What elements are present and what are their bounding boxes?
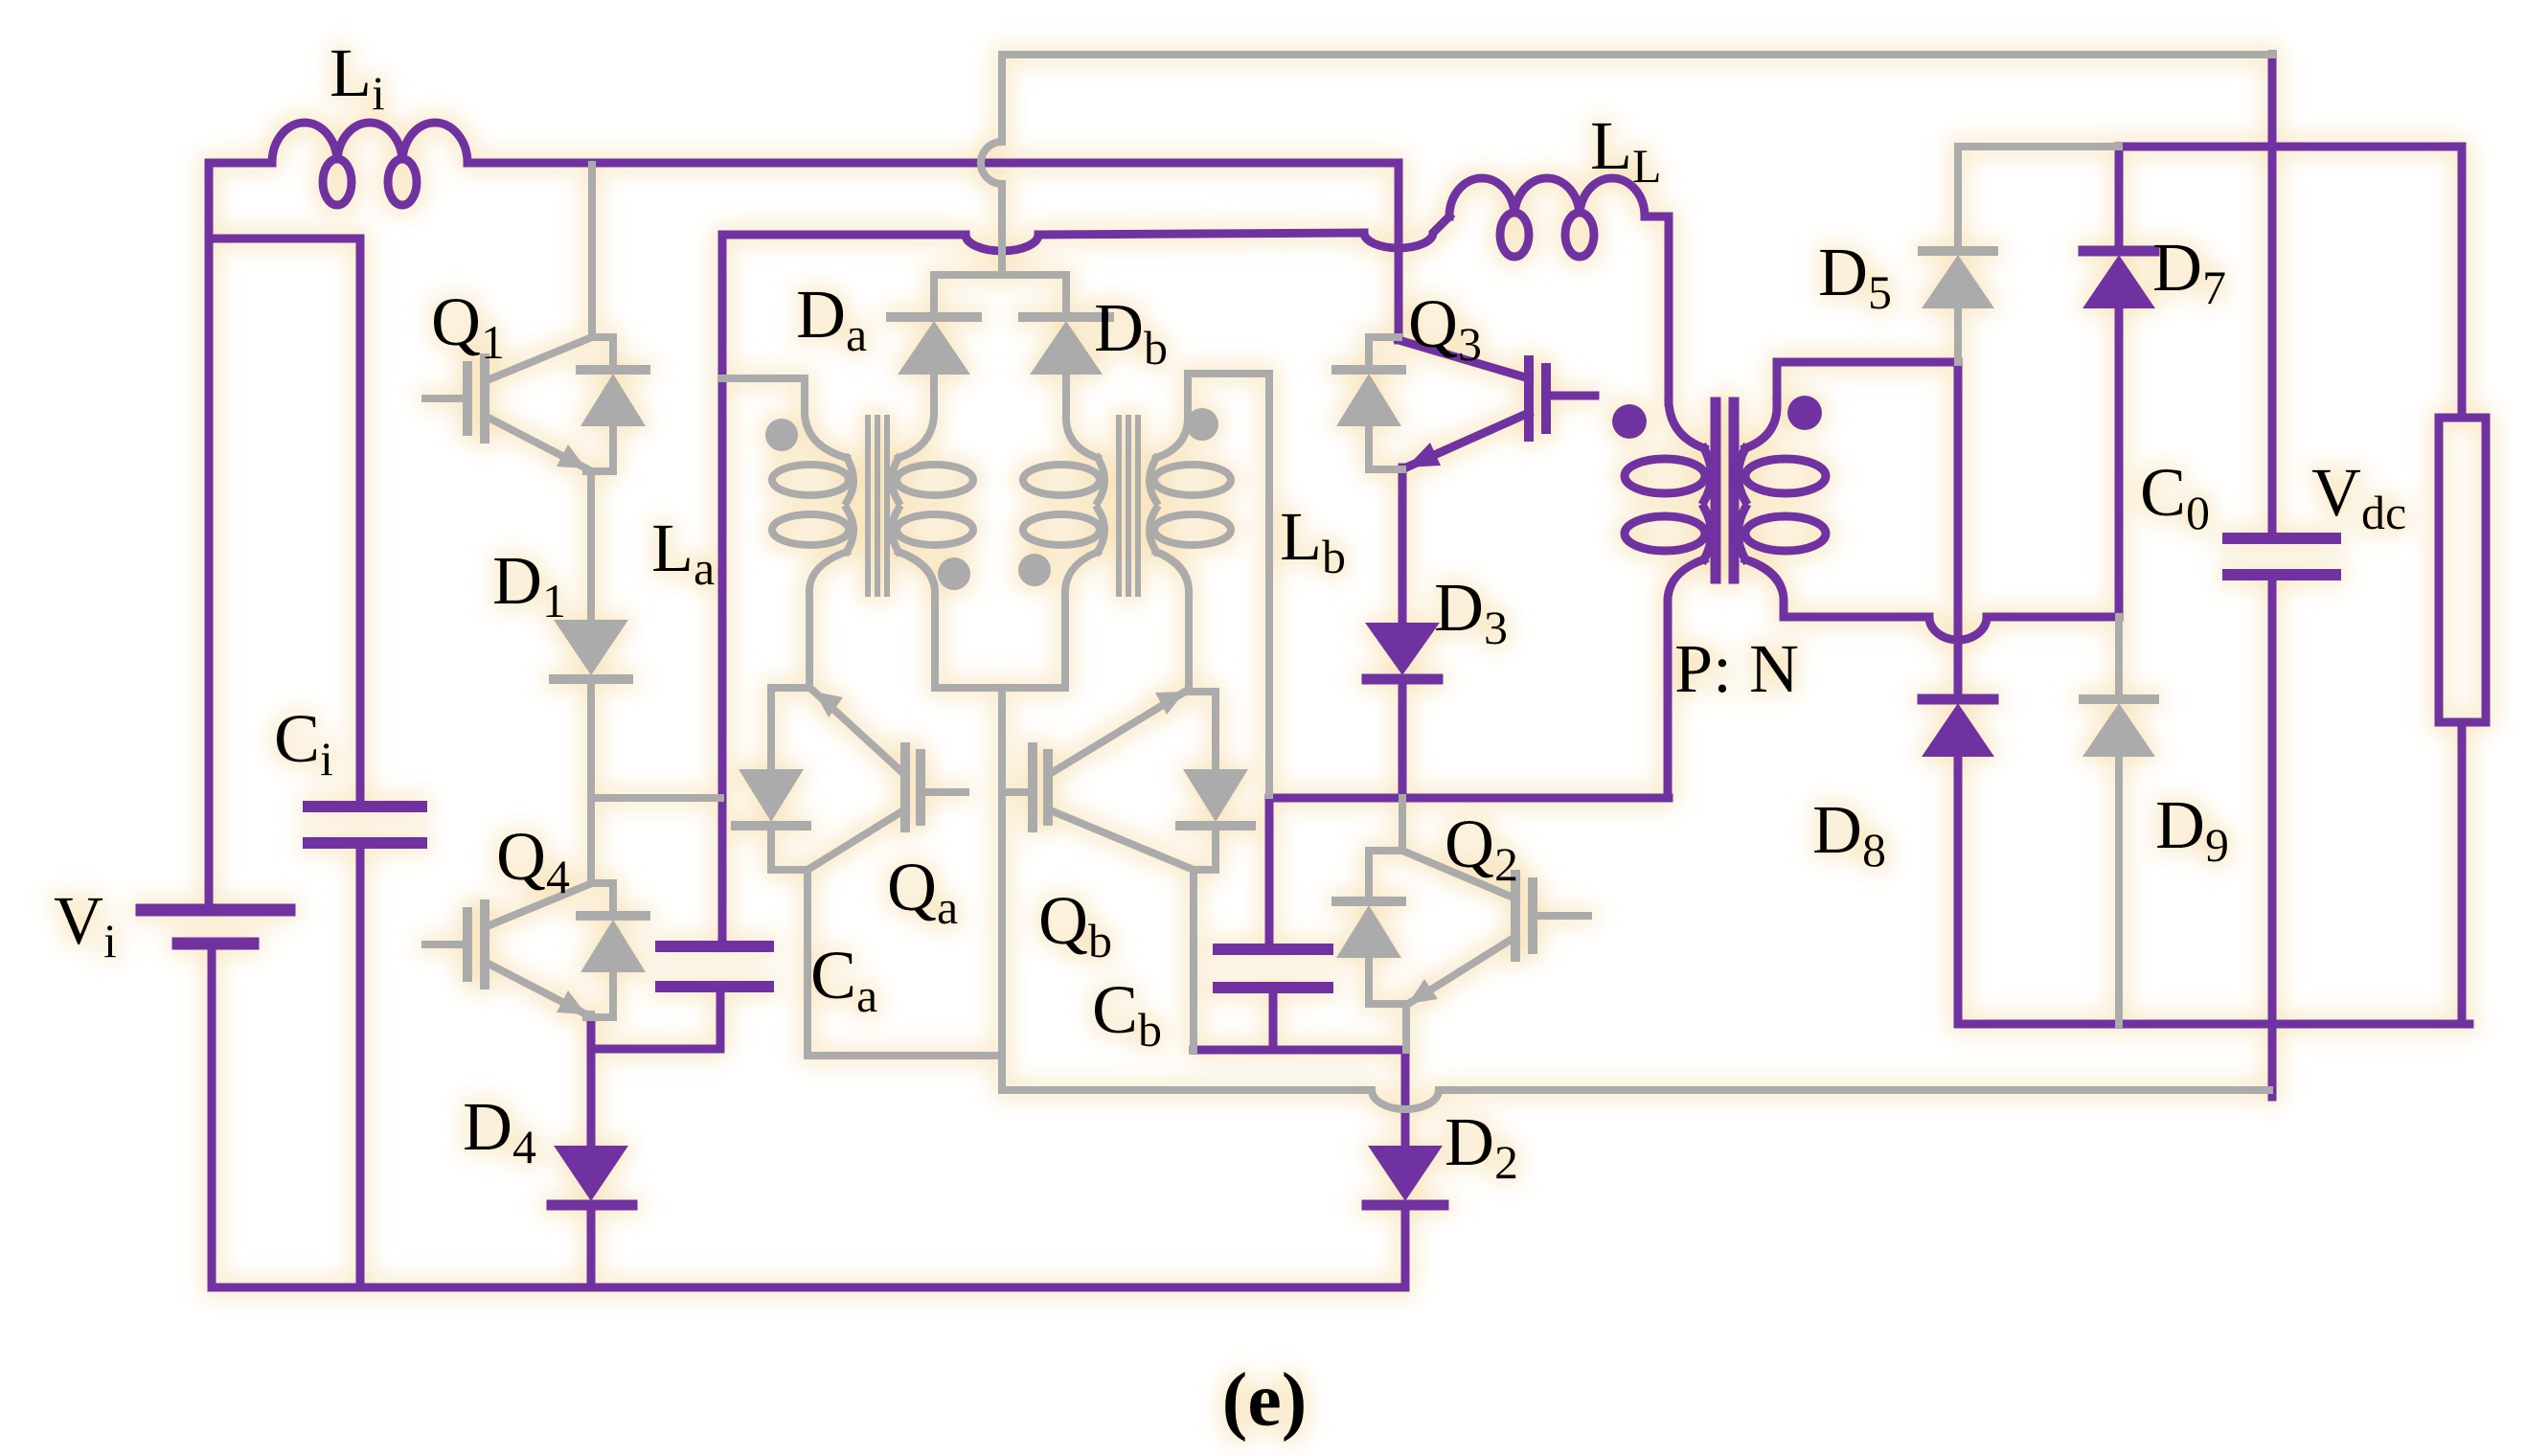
transformer P:N secondary winding [1745,402,1777,448]
wire second rail from Ca column with hops over gray center line and Q3 collector [722,216,1449,251]
antiparallel diode of Qa [771,688,808,870]
transformer b right winding [1156,374,1188,458]
polarity dot transformer a right [938,557,970,590]
wire top rail from Li to Q3 corner [467,159,1399,168]
diode D2 [1401,1050,1410,1146]
antiparallel diode of Q4 [586,883,613,1017]
svg-text:D8: D8 [1812,791,1886,876]
wire Vdc column from gray top rail [2268,55,2277,538]
transistor Q3 (IGBT, purple) [1395,163,1403,340]
polarity dot secondary [1787,396,1822,430]
load resistor [2439,418,2486,722]
transistor Q2 (IGBT, gray) [1399,798,1406,851]
wire Ci branch tap [212,239,360,807]
polarity dot primary [1612,404,1647,439]
capacitor Ci [308,807,421,843]
svg-text:Da: Da [796,276,867,361]
wire secondary bottom to D7 anode with hop over D8 column [1784,617,2119,640]
transistor Q4 (IGBT, gray) [463,912,472,977]
diode Db [1062,275,1070,317]
wire output bottom rail [1958,1020,2469,1029]
transformer b core [1119,418,1138,594]
svg-text:Qb: Qb [1038,882,1112,967]
polarity dot transformer b left [1018,554,1051,586]
polarity dot transformer a left [765,419,798,451]
svg-text:Db: Db [1094,289,1168,375]
wire Qb collector down to Cb rail [1190,870,1197,1050]
svg-text:Lb: Lb [1280,498,1346,583]
svg-text:D1: D1 [492,542,566,627]
wire Lb corner down to Cb [1265,798,1274,949]
wire secondary top to D5 anode [1777,362,1958,402]
transistor Qb (IGBT, gray) [1028,747,1037,828]
wire Cb bottom rail segment [1194,988,1405,1050]
capacitor Ca [661,946,768,987]
svg-text:Cb: Cb [1092,971,1162,1057]
antiparallel diode of Qb [1194,692,1216,870]
wire gray top rail to Vdc column [1002,51,2272,58]
svg-text:Q3: Q3 [1408,285,1482,371]
svg-text:D3: D3 [1434,569,1508,654]
svg-text:LL: LL [1590,107,1662,193]
wire left rail below battery to bottom rail corner [208,947,216,1287]
diode D9 [2115,617,2123,699]
svg-text:D4: D4 [463,1088,536,1173]
wire Ci to bottom rail [356,843,365,1287]
wire left input loop: top-left corner and left rail down to Vi [209,163,272,904]
diode Da [930,275,938,317]
svg-text:Li: Li [330,34,385,120]
svg-text:D9: D9 [2155,786,2229,872]
wire bottom rail [212,1284,1405,1292]
diode D4 [587,1017,596,1146]
svg-text:(e): (e) [1222,1358,1308,1443]
diode D7 [2115,147,2124,251]
transformer a core [868,418,887,594]
wire Ca column vertical [718,235,727,946]
svg-text:D5: D5 [1818,234,1892,319]
wire gray output top rail segment [1958,143,2119,150]
svg-text:Ca: Ca [810,937,877,1022]
svg-text:Q1: Q1 [431,284,505,369]
svg-text:Q4: Q4 [496,818,570,903]
inductor Li [272,123,467,163]
svg-text:Qa: Qa [887,849,958,934]
svg-text:La: La [651,510,715,595]
node D3-Q2 junction to transformer primary bottom [1269,794,1669,803]
transformer a right winding [899,375,934,458]
capacitor Cb [1218,949,1328,988]
wire Da-Db top bar [934,271,1066,279]
diode D3 [1399,467,1407,623]
transformer b left winding [1066,375,1098,458]
antiparallel diode of Q3 [1369,337,1402,469]
wire D1-Q4 node to Ca top column [591,794,720,802]
wire center column up with hop over purple rail [998,55,1006,275]
wire center column down and long return line with hop over D2 column [1002,688,2269,1090]
diode D8 [1923,694,1993,705]
battery Vi [142,904,289,917]
transformer P:N core [1716,402,1734,579]
svg-text:Vdc: Vdc [2311,454,2406,539]
wire Q2 emitter to Cb rail [1402,1004,1410,1050]
capacitor Vdc [2228,538,2335,575]
wire transformer bottoms to center column [935,684,1065,692]
transformer a left winding [721,378,847,458]
inductor LL [1449,178,1645,216]
wire LL to transformer primary [1645,216,1669,402]
svg-text:Q2: Q2 [1445,806,1518,891]
antiparallel diode of Q2 [1369,851,1406,1004]
wire D5 anode down to D8 [1954,362,1963,699]
wire Lb rectangle [1188,374,1269,795]
diode D5 [1954,147,1962,251]
transformer P:N primary winding [1669,402,1704,448]
svg-text:D2: D2 [1445,1103,1518,1189]
antiparallel diode of Q1 [586,337,613,471]
svg-text:D7: D7 [2152,229,2226,314]
wire Qa collector down to center column [808,870,1002,1056]
svg-text:Vi: Vi [54,882,117,967]
diode D1 [587,471,595,620]
svg-text:Ci: Ci [274,700,333,785]
wire output top rail [2119,147,2462,418]
wire Ca bottom to Q4 emitter node [591,987,720,1049]
transistor Q1 (IGBT, gray) [588,165,596,337]
svg-text:C0: C0 [2140,454,2210,539]
transistor Qa (IGBT, gray) [916,754,925,821]
svg-text:P: N: P: N [1674,630,1799,707]
polarity dot transformer b right [1186,408,1218,441]
